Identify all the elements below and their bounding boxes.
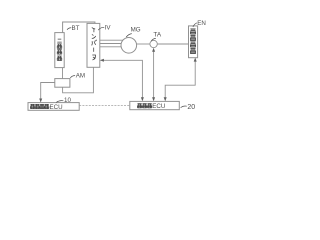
wire AM bottom to inverter bottom: [63, 67, 94, 93]
wire MG to TA: [136, 43, 150, 45]
svg-text:10: 10: [64, 97, 71, 104]
wire TA to EN: [157, 43, 189, 45]
label AM with leader: [70, 72, 85, 79]
inverter IV: [87, 23, 100, 67]
battery monitoring ECU 10: [28, 103, 79, 111]
svg-text:TA: TA: [153, 32, 161, 39]
label IV with leader: [98, 24, 111, 31]
dashed communication line between ECUs: [79, 104, 130, 106]
battery BT (secondary battery): [55, 33, 64, 68]
wire AM to battery ECU with arrow: [41, 83, 55, 100]
three-phase wires inverter to MG: [100, 40, 123, 47]
wire drive ECU to inverter (L path) with arrows: [103, 60, 142, 98]
svg-text:AM: AM: [76, 72, 85, 79]
label MG with leader: [126, 26, 141, 37]
wire EN to drive ECU, arrows both ends: [165, 61, 195, 98]
wire TA to drive ECU, arrows both ends: [153, 51, 155, 98]
svg-text:MG: MG: [131, 26, 141, 33]
svg-text:EN: EN: [197, 20, 206, 27]
engine EN: [189, 26, 198, 58]
svg-text:ECU: ECU: [152, 103, 165, 110]
wire battery top to inverter top: [63, 22, 95, 33]
motor generator MG: [121, 38, 137, 54]
svg-text:ECU: ECU: [50, 104, 63, 111]
sensor TA: [150, 40, 157, 47]
label TA with leader: [151, 32, 162, 42]
wire battery bottom to AM: [62, 68, 64, 79]
svg-text:20: 20: [187, 104, 195, 111]
label 10 with leader: [56, 97, 71, 104]
svg-text:IV: IV: [105, 24, 112, 31]
label EN with leader: [193, 20, 206, 27]
label 20 with leader: [181, 104, 196, 111]
label BT with leader: [67, 25, 80, 32]
current sensor AM: [55, 79, 70, 88]
svg-text:BT: BT: [72, 25, 80, 32]
drive system ECU 20: [130, 101, 180, 110]
